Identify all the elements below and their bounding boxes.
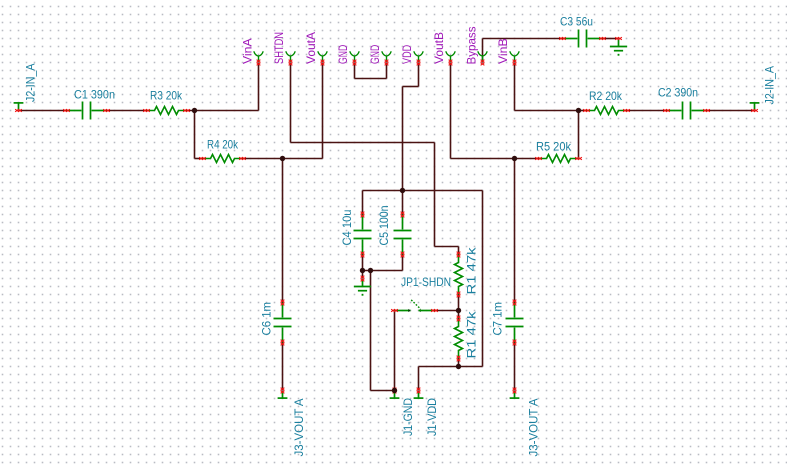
svg-text:VinA: VinA [240, 38, 254, 64]
pin connection mark [391, 309, 398, 312]
pin connection mark [703, 109, 710, 112]
junction node D [392, 388, 397, 393]
pin connection mark [321, 60, 325, 66]
jumper JP1 right contact [419, 309, 421, 312]
pin connection mark [575, 157, 582, 160]
wire VinB to node H [515, 110, 579, 112]
svg-text:J3-VOUT A: J3-VOUT A [526, 399, 540, 457]
wire VDD bottom rail [419, 366, 483, 368]
wire VDD down to rail [402, 87, 404, 191]
wire node d2 down [370, 271, 372, 391]
svg-text:J2-IN_A: J2-IN_A [23, 64, 37, 103]
svg-text:R2 20k: R2 20k [589, 89, 623, 103]
resistor R4 [203, 155, 243, 163]
pin connection mark [63, 109, 70, 112]
svg-text:R1 47k: R1 47k [465, 246, 479, 294]
wire C2 to J2R [707, 110, 755, 112]
capacitor C1 [67, 102, 107, 120]
pin connection mark [15, 109, 22, 112]
pin connection mark [361, 276, 365, 282]
junction node A [192, 108, 197, 113]
junction node C [456, 308, 461, 313]
wire VoutB down [450, 63, 452, 159]
wire JP1 right to node C [435, 310, 459, 312]
wire C3 to ground [603, 38, 619, 40]
pin connection mark [257, 60, 261, 66]
wire riser to pin VinA [258, 63, 260, 111]
capacitor C7 [506, 303, 524, 343]
jumper JP1 right lead [419, 310, 435, 312]
svg-text:SHTDN: SHTDN [272, 32, 286, 64]
capacitor C2 [667, 102, 707, 120]
pin connection mark [513, 388, 517, 394]
resistor R3 [147, 107, 187, 115]
ground at C3 [610, 39, 627, 56]
wire node A down [194, 111, 196, 159]
junction node G [512, 156, 517, 161]
svg-text:VDD: VDD [400, 45, 414, 64]
wire C1 to R3 [107, 110, 147, 112]
junction node H [576, 108, 581, 113]
pin connection mark [623, 109, 630, 112]
pin J1-VDD [414, 391, 424, 398]
pin connection mark [449, 60, 453, 66]
pin connection mark [457, 356, 461, 362]
pin connection mark [417, 388, 421, 394]
wire R3 to VinA riser [187, 110, 259, 112]
svg-text:C7 1m: C7 1m [490, 302, 504, 336]
resistor R5 [539, 155, 579, 163]
wire to R1 top [458, 247, 460, 255]
wire GND tie across [355, 78, 387, 80]
pin VinB [510, 51, 519, 62]
capacitor C3 [563, 30, 603, 48]
pin VinA [254, 51, 263, 62]
svg-text:C5 100n: C5 100n [377, 206, 391, 246]
wire VinB down [514, 63, 516, 111]
svg-text:VoutA: VoutA [304, 32, 318, 64]
wire to node D [371, 390, 395, 392]
resistor R1 lower [455, 319, 463, 359]
pin SHTDN [286, 51, 295, 62]
wire R1b to node F [458, 359, 460, 367]
wire VDD rail [363, 190, 483, 192]
wire VoutB to R5 [451, 158, 539, 160]
wire Bypass column down [482, 191, 484, 367]
wire SHTDN across [291, 142, 435, 144]
jumper JP1 left lead [395, 310, 411, 312]
svg-text:R5 20k: R5 20k [536, 140, 572, 154]
svg-text:Bypass: Bypass [464, 27, 478, 65]
junction node d1 [360, 268, 365, 273]
svg-text:VinB: VinB [496, 38, 510, 64]
pin connection mark [103, 109, 110, 112]
pin connection mark [535, 157, 542, 160]
wire C4 to ground node [362, 255, 364, 279]
pin GND [350, 51, 359, 62]
pin connection mark [361, 252, 365, 258]
svg-text:J1-VDD: J1-VDD [425, 398, 439, 436]
wire down to J1-VDD [418, 367, 420, 391]
capacitor C5 [394, 215, 412, 255]
capacitor C4 [354, 215, 372, 255]
wire VDD down [418, 63, 420, 87]
wire node B down to C6 [282, 159, 284, 303]
svg-text:JP1-SHDN: JP1-SHDN [401, 275, 451, 289]
pin connection mark [615, 37, 622, 40]
svg-text:C4 10u: C4 10u [340, 210, 354, 246]
pin VDD [414, 51, 423, 62]
svg-text:C1 390n: C1 390n [74, 88, 115, 102]
pin connection mark [513, 60, 517, 66]
svg-text:C2 390n: C2 390n [658, 86, 698, 100]
pin connection mark [199, 157, 206, 160]
wire riser to pin VoutA [322, 63, 324, 159]
pin connection mark [583, 109, 590, 112]
pin connection mark [663, 109, 670, 112]
ground below C4/C5 [354, 279, 371, 296]
pin connection mark [559, 37, 566, 40]
pin connection mark [751, 109, 758, 112]
wire C5 to ground rail [363, 270, 403, 272]
pin connection mark [281, 300, 285, 306]
pin connection mark [457, 292, 461, 298]
pin connection mark [361, 212, 365, 218]
wire rail to C4 [362, 191, 364, 215]
jumper JP1 left contact [408, 309, 410, 312]
wire SHTDN jog [435, 246, 459, 248]
pin connection mark [401, 252, 405, 258]
wire C6 to J3-VOUTA [282, 343, 284, 391]
wire C5 down [402, 255, 404, 271]
pin connection mark [417, 60, 421, 66]
pin Bypass [478, 51, 487, 62]
wire node H down to R5 [578, 111, 580, 159]
wire Bypass up [482, 39, 484, 63]
wire node E to C5 [402, 191, 404, 215]
pin connection mark [393, 388, 397, 394]
svg-text:R4 20k: R4 20k [207, 138, 239, 152]
wire R1a to R1b through node C [458, 295, 460, 319]
svg-text:GND: GND [368, 45, 382, 64]
pin connection mark [143, 109, 150, 112]
wire Bypass to C3 [483, 38, 563, 40]
junction node F [456, 364, 461, 369]
junction node B [280, 156, 285, 161]
pin connection mark [385, 60, 389, 66]
svg-text:J2-IN_A: J2-IN_A [763, 66, 777, 105]
pin connection mark [431, 309, 438, 312]
wire node G down to C7 [514, 159, 516, 303]
wire GND1 down [354, 63, 356, 79]
pin connection mark [289, 60, 293, 66]
pin connection mark [401, 212, 405, 218]
junction node d2 [368, 268, 373, 273]
wire C7 to J3-VOUTA [514, 343, 516, 391]
pin connection mark [353, 60, 357, 66]
svg-text:VoutB: VoutB [432, 32, 446, 64]
wire GND2 up [386, 63, 388, 79]
wire R2 to C2 [627, 110, 667, 112]
pin connection mark [481, 60, 485, 66]
pin connection mark [239, 157, 246, 160]
svg-text:R1 47k: R1 47k [465, 310, 479, 358]
junction node E [400, 188, 405, 193]
pin connection mark [281, 388, 285, 394]
pin GND [382, 51, 391, 62]
jumper JP1 open arm [411, 300, 420, 309]
pin J3-VOUTA left [278, 391, 288, 398]
pin connection mark [183, 109, 190, 112]
wire to R4 [195, 158, 203, 160]
pin connection mark [457, 252, 461, 258]
pin connection mark [281, 340, 285, 346]
wire R4 to VoutA riser [243, 158, 323, 160]
svg-text:C6 1m: C6 1m [260, 302, 274, 336]
pin connection mark [513, 340, 517, 346]
svg-text:R3 20k: R3 20k [150, 89, 183, 103]
svg-text:J1-GND: J1-GND [401, 398, 415, 436]
pin J1-GND [390, 391, 400, 398]
wire SHTDN down 2 [434, 143, 436, 247]
pin VoutB [446, 51, 455, 62]
capacitor C6 [274, 303, 292, 343]
pin connection mark [513, 300, 517, 306]
wire J2L to C1 [19, 110, 67, 112]
resistor R2 [587, 107, 627, 115]
pin J3-VOUTA right [510, 391, 520, 398]
pin J2-IN_A left [14, 103, 24, 110]
wire SHTDN down [290, 63, 292, 143]
resistor R1 upper [455, 255, 463, 295]
wire VDD jog left [403, 86, 419, 88]
svg-text:C3 56u: C3 56u [560, 15, 593, 29]
pin connection mark [457, 316, 461, 322]
pin VoutA [318, 51, 327, 62]
svg-text:J3-VOUT A: J3-VOUT A [292, 399, 306, 457]
svg-text:GND: GND [336, 45, 350, 64]
pin J2-IN_A right [750, 103, 760, 110]
pin connection mark [599, 37, 606, 40]
wire JP1 left down to node D [394, 311, 396, 391]
wire node H to R2 [579, 110, 587, 112]
